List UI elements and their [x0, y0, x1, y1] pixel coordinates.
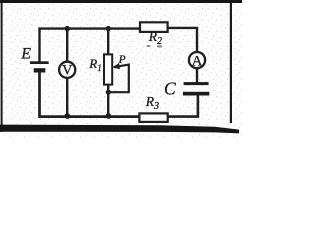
- node: junction top of voltmeter branch: [65, 26, 70, 31]
- wire: top rail from left corner to R2: [40, 29, 141, 62]
- capacitor C: top plate: [184, 82, 209, 85]
- resistor R2: [140, 22, 168, 32]
- battery E: long positive plate: [30, 61, 49, 64]
- svg-text:V: V: [62, 62, 73, 78]
- resistor R3: [139, 113, 167, 122]
- wire: battery negative to bottom-left corner: [40, 72, 141, 117]
- node: junction bottom of voltmeter branch: [64, 113, 70, 119]
- resistor R1 (rheostat body): [104, 54, 112, 84]
- wire: top rail from R2 to right corner, down to ammeter: [168, 28, 198, 52]
- voltmeter V: [59, 62, 75, 78]
- wire: rheostat R1 branch lower: [107, 84, 109, 116]
- wire: voltmeter branch lower: [66, 79, 68, 117]
- battery E: short thick negative plate: [34, 68, 46, 72]
- svg-text:E: E: [20, 46, 31, 63]
- wiper arrowhead pointing at R1: [112, 63, 120, 70]
- node: junction top of R1 branch: [106, 26, 111, 31]
- node: junction bottom of R1 branch: [105, 113, 111, 119]
- wiper arm of rheostat (slider): [109, 65, 129, 93]
- capacitor C: bottom plate: [183, 92, 209, 96]
- svg-text:P: P: [118, 54, 126, 66]
- node: junction of wiper return on R1 branch: [106, 90, 111, 95]
- wire: bottom rail from R3 to bottom-right corner, up to capacitor: [168, 95, 198, 116]
- svg-text:C: C: [164, 78, 176, 98]
- wire: ammeter to capacitor top plate: [196, 68, 198, 83]
- svg-text:A: A: [192, 53, 203, 69]
- wire: rheostat R1 branch upper: [107, 29, 109, 55]
- ammeter A: [189, 52, 205, 68]
- wire: voltmeter branch upper: [66, 29, 68, 62]
